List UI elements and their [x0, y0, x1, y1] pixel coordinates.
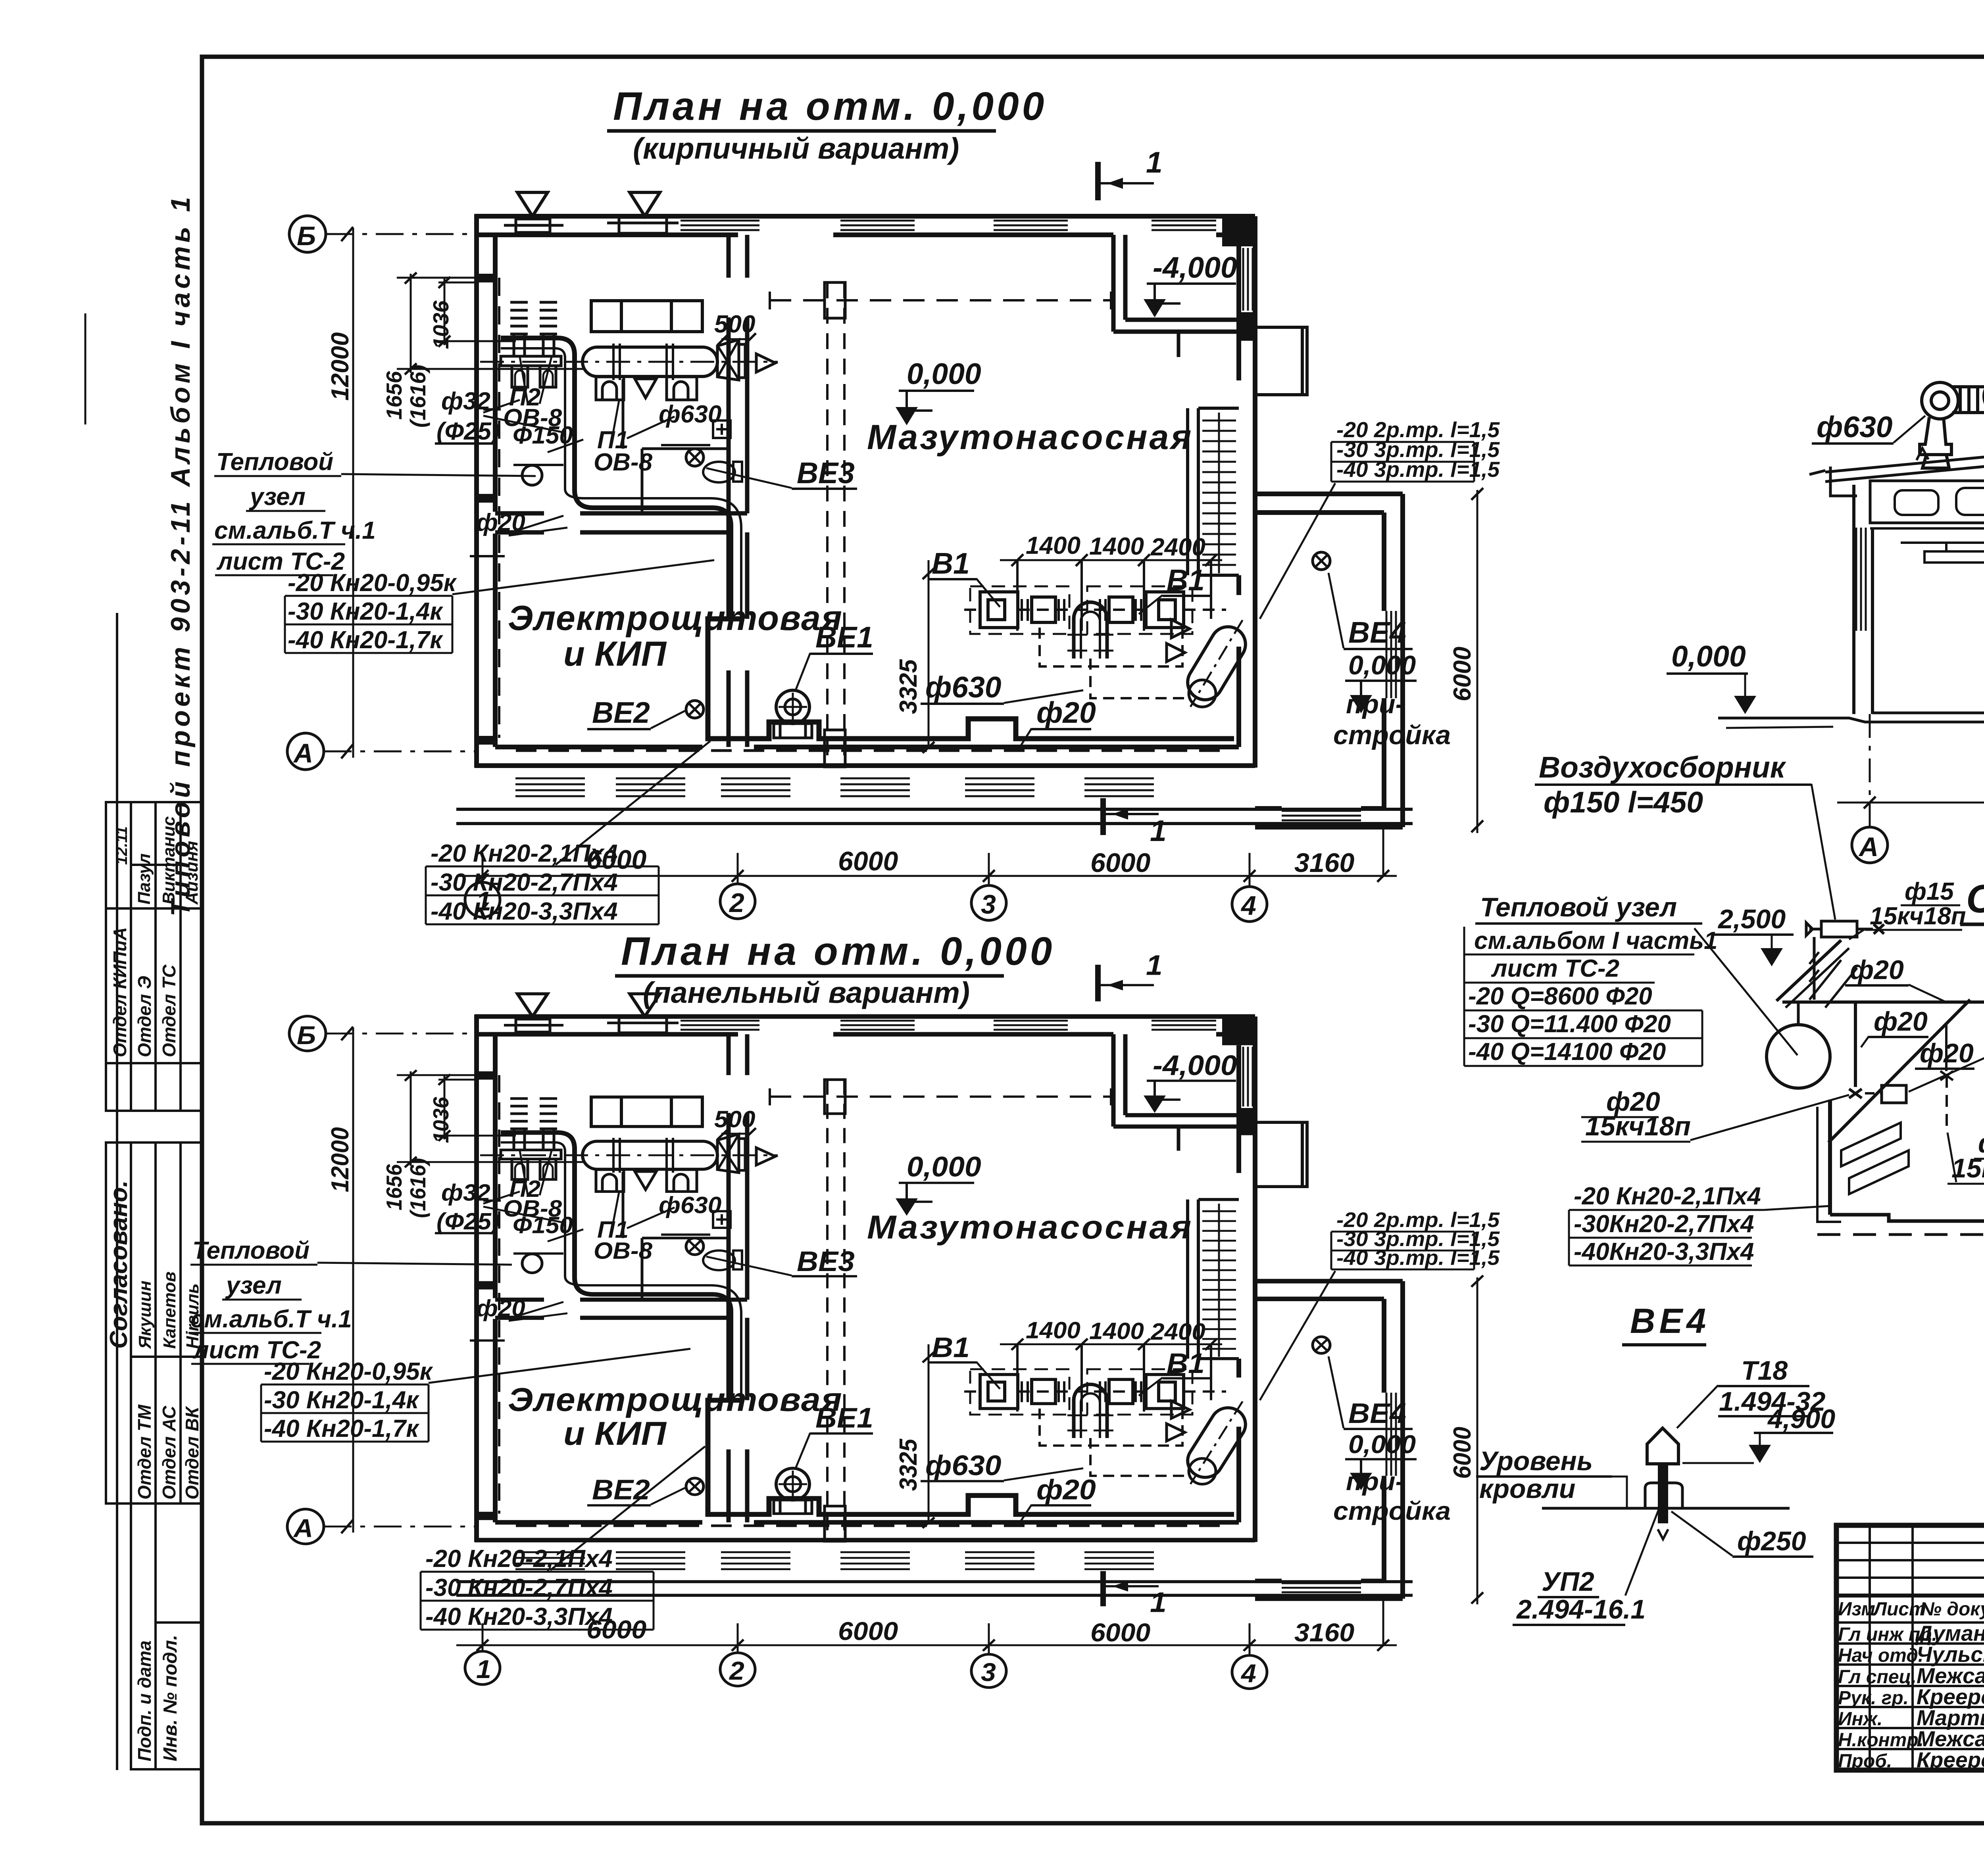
svg-text:Ф150: Ф150	[513, 422, 573, 449]
svg-text:лист ТС-2: лист ТС-2	[1491, 955, 1619, 982]
svg-text:12000: 12000	[327, 332, 354, 401]
top wall axis Б	[475, 216, 1255, 235]
svg-text:ф20: ф20	[476, 509, 525, 536]
svg-text:ВЕ1: ВЕ1	[815, 620, 873, 654]
hollow triangle between fans	[635, 379, 656, 398]
svg-text:Пазул: Пазул	[135, 853, 154, 904]
svg-text:ф630: ф630	[659, 401, 721, 428]
svg-text:№ докум.: № докум.	[1920, 1599, 1984, 1620]
wc toilet	[703, 462, 735, 482]
tilted cylinder tank	[1175, 611, 1257, 716]
svg-text:ф32: ф32	[441, 388, 490, 415]
svg-text:(кирпичный вариант): (кирпичный вариант)	[633, 132, 959, 165]
top wall windows	[681, 221, 1216, 230]
svg-text:ОВ-8: ОВ-8	[594, 449, 653, 476]
svg-text:-40Кн20-3,3Пх4: -40Кн20-3,3Пх4	[1574, 1238, 1754, 1265]
svg-text:Аизиня: Аизиня	[182, 841, 202, 905]
bottom perimeter pipe solid	[1830, 1206, 1984, 1221]
vertical riser with valve	[1854, 1002, 1857, 1087]
axis circles	[1852, 827, 1888, 863]
svg-text:Мазутонасосная: Мазутонасосная	[867, 417, 1193, 457]
fan boxes below calorifer	[596, 377, 697, 400]
bottom wall axis А	[475, 747, 1255, 766]
svg-text:Рук. гр.: Рук. гр.	[1838, 1688, 1909, 1709]
vertical drop from collector	[1813, 937, 1816, 1000]
BE1 symbol and label	[776, 690, 809, 724]
svg-text:В1: В1	[932, 547, 970, 580]
svg-text:-30 Q=11.400 Ф20: -30 Q=11.400 Ф20	[1468, 1010, 1671, 1038]
svg-text:УП2: УП2	[1542, 1567, 1594, 1597]
blind area lines below building	[456, 808, 1413, 811]
svg-text:12.11: 12.11	[113, 826, 131, 865]
vent unit P1 upper casing	[591, 301, 702, 332]
svg-text:-30 Кн20-1,4к: -30 Кн20-1,4к	[288, 598, 443, 625]
wc partition	[623, 379, 729, 513]
svg-text:Электрощитовая: Электрощитовая	[508, 598, 843, 637]
svg-text:ф15: ф15	[1905, 878, 1954, 905]
svg-text:Схема отопления: Схема отопления	[1966, 877, 1984, 921]
vent unit P2 pedestals	[501, 302, 561, 387]
stamp table A	[106, 802, 202, 1111]
svg-text:стройка: стройка	[1333, 720, 1451, 750]
svg-text:(панельный вариант): (панельный вариант)	[643, 976, 970, 1009]
dashed return pipe	[498, 278, 500, 738]
U pipe	[1074, 602, 1107, 659]
interior floor line	[1872, 712, 1984, 714]
svg-text:и КИП: и КИП	[563, 634, 667, 673]
plan titles	[607, 84, 1055, 1009]
left wall axis 1	[477, 214, 495, 768]
svg-text:Виктанис: Виктанис	[159, 816, 179, 904]
axis circles 1-4	[465, 827, 1383, 922]
svg-text:Инв. № подл.: Инв. № подл.	[160, 1635, 181, 1761]
svg-text:Чульский: Чульский	[1917, 1642, 1984, 1667]
svg-text:Н.контр.: Н.контр.	[1838, 1730, 1924, 1751]
svg-text:кровли: кровли	[1479, 1474, 1575, 1504]
top horizontal main pipe	[1782, 1000, 1984, 1004]
svg-text:Изм: Изм	[1838, 1599, 1875, 1620]
svg-text:ф630: ф630	[925, 670, 1002, 704]
svg-text:1400: 1400	[1089, 533, 1144, 560]
left wall column	[1854, 485, 1872, 714]
interior wall vent room horizontal	[495, 513, 747, 532]
svg-text:Проб.: Проб.	[1838, 1751, 1892, 1772]
svg-text:ВЕ4: ВЕ4	[1630, 1301, 1710, 1340]
svg-text:В1: В1	[1167, 563, 1205, 597]
svg-text:Капетов: Капетов	[160, 1271, 179, 1349]
stamp table C	[131, 1503, 202, 1769]
pit room stub wall	[1177, 332, 1180, 357]
svg-text:(1616): (1616)	[406, 365, 430, 428]
electro room right wall	[729, 532, 747, 747]
note blocks plan 1	[212, 448, 714, 654]
svg-text:ВЕ4: ВЕ4	[1348, 616, 1406, 649]
dashed pit outline line	[770, 299, 1111, 301]
svg-text:Воздухосборник: Воздухосборник	[1539, 751, 1787, 784]
svg-text:Отдел ТМ: Отдел ТМ	[134, 1404, 155, 1500]
heavy heating pipe S run	[501, 338, 731, 620]
svg-text:1656: 1656	[382, 371, 406, 420]
section cut mark bottom	[1100, 798, 1106, 835]
svg-text:Отдел КИПиА: Отдел КИПиА	[110, 927, 130, 1057]
svg-text:1400: 1400	[1026, 532, 1080, 559]
svg-text:4: 4	[1240, 891, 1256, 921]
svg-text:А: А	[1858, 832, 1878, 862]
svg-text:ф20: ф20	[1036, 696, 1096, 729]
annex BE4	[1313, 552, 1330, 570]
svg-text:-30 Кн20-2,7Пх4: -30 Кн20-2,7Пх4	[431, 869, 618, 896]
svg-text:Отдел ТС: Отдел ТС	[159, 964, 179, 1057]
svg-text:ф630: ф630	[1817, 410, 1893, 444]
left wall pilasters	[475, 274, 495, 745]
vertical dim 12000	[352, 228, 354, 758]
roof fan group	[1920, 377, 1984, 468]
svg-text:6000: 6000	[1449, 647, 1476, 701]
basement pit room	[1113, 235, 1255, 332]
svg-text:-40 Кн20-3,3Пх4: -40 Кн20-3,3Пх4	[431, 898, 618, 925]
svg-text:Т18: Т18	[1741, 1356, 1788, 1386]
svg-text:Инж.: Инж.	[1838, 1709, 1882, 1730]
svg-text:Якушин: Якушин	[135, 1281, 155, 1349]
svg-text:Отдел Э: Отдел Э	[134, 976, 155, 1057]
svg-text:Согласовано.: Согласовано.	[105, 1180, 133, 1349]
svg-text:0,000: 0,000	[1671, 639, 1746, 673]
svg-text:-20 Кн20-0,95к: -20 Кн20-0,95к	[288, 569, 457, 597]
svg-text:3160: 3160	[1294, 848, 1354, 878]
air collector top assembly	[1806, 921, 1884, 937]
interior crane beam line	[1901, 541, 1984, 544]
svg-text:Отдел ВК: Отдел ВК	[182, 1406, 202, 1500]
section cut mark top	[1095, 162, 1101, 200]
roof level line	[1542, 1507, 1790, 1510]
ground line	[1718, 718, 1984, 722]
plus box	[713, 421, 731, 438]
svg-text:500: 500	[714, 311, 755, 338]
svg-text:4,900: 4,900	[1767, 1404, 1835, 1434]
svg-text:-20 Кн20-2,1Пх4: -20 Кн20-2,1Пх4	[431, 840, 618, 867]
outer box	[1836, 1525, 1984, 1770]
svg-text:Отдел АС: Отдел АС	[159, 1406, 179, 1500]
svg-text:0,000: 0,000	[1348, 650, 1416, 680]
svg-text:-20 Q=8600 Ф20: -20 Q=8600 Ф20	[1468, 983, 1652, 1010]
svg-text:Уровень: Уровень	[1479, 1446, 1593, 1476]
svg-text:3325: 3325	[895, 659, 922, 714]
svg-text:Подп. и дата: Подп. и дата	[134, 1640, 155, 1761]
bottom dim line	[456, 875, 1397, 877]
radiators in axon	[1841, 1123, 1909, 1194]
roof vent triangles	[517, 192, 548, 216]
svg-text:ф150 l=450: ф150 l=450	[1544, 785, 1703, 819]
sloped roof line of scheme	[1776, 940, 1841, 1001]
stem	[1658, 1464, 1668, 1523]
leader underlines	[435, 409, 710, 556]
left revision grid	[1836, 1525, 1984, 1770]
svg-text:-30Кн20-2,7Пх4: -30Кн20-2,7Пх4	[1574, 1210, 1754, 1238]
annex windows	[1282, 611, 1396, 820]
svg-text:ф250: ф250	[1737, 1526, 1806, 1556]
valve on riser mid	[1940, 1071, 1953, 1080]
svg-text:Креерс: Креерс	[1917, 1747, 1984, 1772]
svg-text:при-: при-	[1346, 689, 1404, 719]
top-right entry block	[1257, 327, 1307, 395]
note blocks plan 2	[188, 1237, 690, 1442]
dashed suction pipes	[1040, 628, 1190, 698]
flow triangles	[1171, 620, 1190, 638]
left wall window	[1856, 528, 1866, 631]
svg-text:2.494-16.1: 2.494-16.1	[1516, 1594, 1646, 1624]
axon wall outline	[1828, 1100, 1832, 1215]
stairwell to basement	[1188, 408, 1239, 575]
right wall axis 4	[1239, 216, 1255, 768]
svg-text:1: 1	[1146, 146, 1163, 179]
monorail dashed track	[827, 282, 844, 767]
svg-text:ВЕ3: ВЕ3	[797, 456, 855, 490]
svg-text:Тепловой узел: Тепловой узел	[1480, 892, 1677, 922]
svg-text:15кч18п: 15кч18п	[1585, 1111, 1691, 1141]
BE2 symbol and label	[686, 701, 704, 718]
annex dim 6000	[1476, 490, 1478, 833]
svg-text:Лист: Лист	[1872, 1599, 1926, 1620]
bottom dashed return	[1817, 1233, 1984, 1236]
svg-text:2: 2	[729, 888, 744, 918]
svg-text:3: 3	[981, 889, 996, 920]
svg-text:План на отм. 0,000: План на отм. 0,000	[613, 84, 1047, 129]
roof slab sloped	[1809, 444, 1984, 482]
svg-text:2400: 2400	[1150, 534, 1205, 561]
bottom dim 12000	[1869, 714, 1871, 828]
svg-text:-40 Кн20-1,7к: -40 Кн20-1,7к	[288, 626, 443, 654]
pump group	[980, 592, 1184, 628]
plan 2: reuse of building	[287, 949, 1500, 1689]
svg-text:Гл спец.: Гл спец.	[1838, 1667, 1917, 1688]
svg-text:2,500: 2,500	[1717, 904, 1786, 934]
svg-text:ВЕ2: ВЕ2	[592, 696, 650, 729]
annex (pristroika) walls	[1255, 494, 1403, 827]
svg-text:Б: Б	[297, 221, 316, 251]
eaves	[1830, 467, 1857, 496]
pipe sensor circle	[522, 465, 542, 485]
svg-text:ф20: ф20	[1874, 1006, 1928, 1037]
vent cap house	[1647, 1428, 1678, 1464]
roof upstands	[1917, 430, 1984, 460]
svg-text:ф20: ф20	[1850, 955, 1904, 985]
svg-text:-4,000: -4,000	[1153, 251, 1237, 284]
expansion tank circle	[1767, 1025, 1830, 1088]
svg-text:6000: 6000	[838, 846, 898, 876]
svg-text:План на отм. 0,000: План на отм. 0,000	[621, 929, 1055, 974]
svg-text:см.альбом I часть1: см.альбом I часть1	[1474, 927, 1718, 954]
stem below roof w arrow	[1658, 1529, 1668, 1539]
svg-text:6000: 6000	[1090, 848, 1150, 878]
svg-text:Тепловой: Тепловой	[216, 448, 333, 476]
svg-text:узел: узел	[249, 483, 306, 511]
dashed service outline around pumps	[970, 586, 1192, 634]
signature rows lines	[1836, 1623, 1984, 1749]
svg-text:Нач отд.: Нач отд.	[1838, 1645, 1923, 1666]
fan BE3 symbol	[686, 449, 704, 466]
svg-text:-40 3р.тр. l=1,5: -40 3р.тр. l=1,5	[1336, 457, 1500, 482]
svg-text:А: А	[293, 738, 313, 768]
bottom wall window sills	[515, 778, 1154, 796]
stamp table B	[106, 1142, 202, 1503]
svg-text:1: 1	[1150, 814, 1167, 847]
interior wall vent room vertical	[729, 235, 747, 532]
calorifer capsule	[480, 344, 778, 380]
svg-text:-20 Кн20-2,1Пх4: -20 Кн20-2,1Пх4	[1574, 1183, 1761, 1210]
perimeter heating pipe	[708, 619, 1234, 739]
svg-text:см.альб.Т ч.1: см.альб.Т ч.1	[214, 517, 376, 544]
sheet cut edge left	[116, 613, 118, 1770]
ceiling slab band with openings	[1870, 481, 1984, 523]
axis circle A	[287, 733, 324, 770]
svg-text:-40 Q=14100 Ф20: -40 Q=14100 Ф20	[1468, 1038, 1666, 1066]
svg-text:(Ф25): (Ф25)	[436, 418, 500, 445]
svg-text:0,000: 0,000	[907, 357, 981, 390]
axis circle B	[289, 216, 326, 252]
outlet funnel	[717, 340, 739, 380]
collar	[1645, 1483, 1682, 1508]
